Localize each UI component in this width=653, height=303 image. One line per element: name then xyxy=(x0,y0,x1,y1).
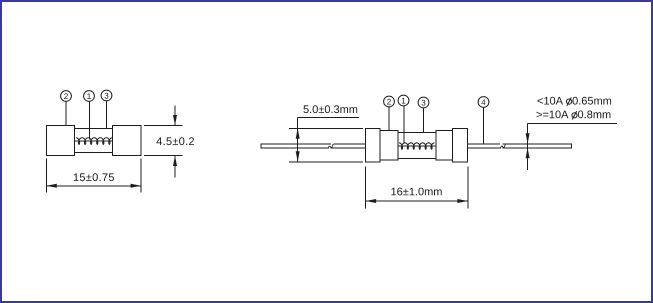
leader from circle 2 to inner cap xyxy=(388,107,390,131)
fuse left view: glass tube xyxy=(75,129,113,153)
dimension text 4.5±0.2 xyxy=(156,137,194,145)
left lead wire top line xyxy=(261,143,331,145)
dimension text 16±1.0mm xyxy=(391,188,441,196)
left lead wire end xyxy=(260,143,262,148)
dimension 16±1.0mm extension line right xyxy=(467,166,469,208)
right lead wire top line xyxy=(468,143,500,145)
leader line from circle 2 to left cap xyxy=(65,101,67,125)
right lead wire bottom line xyxy=(468,147,501,149)
lead diameter leader horizontal xyxy=(528,122,617,124)
axial view: left inner cap xyxy=(380,131,398,161)
leader from circle 1 to fuse element xyxy=(403,106,405,143)
lead diameter leader vertical with arrows xyxy=(527,123,529,170)
dimension 4.5±0.2 extension line top xyxy=(144,125,183,127)
fuse left view: right end cap xyxy=(113,126,142,156)
lead diameter annotation line 2: >=10A ø0.8mm xyxy=(537,111,569,119)
leader from circle 4 to lead wire xyxy=(483,107,485,143)
leader from circle 3 to glass tube xyxy=(422,108,424,133)
dimension 5.0 extension line bottom xyxy=(289,161,363,163)
dimension 5.0 extension line top xyxy=(289,127,363,129)
dimension 4.5±0.2 upper arrow xyxy=(174,105,176,125)
break mark on right lead xyxy=(500,144,505,149)
callout circle 4 (axial view) xyxy=(478,97,489,108)
left lead wire bottom line xyxy=(261,147,328,149)
callout circle 3 (axial view) xyxy=(418,97,429,108)
axial view: left outer cap xyxy=(365,129,380,163)
dimension 15±0.75 extension line left xyxy=(45,159,47,193)
leader line from circle 1 to fuse element xyxy=(88,101,90,139)
fuse element coil (left view) xyxy=(76,138,112,145)
dimension text 15±0.75 xyxy=(74,173,114,181)
leader line from circle 3 to glass tube xyxy=(106,101,108,129)
dimension 5.0±0.3mm leader underline xyxy=(298,117,359,119)
callout circle 1 (left view) xyxy=(84,91,95,102)
dimension 16±1.0mm extension line left xyxy=(365,166,367,208)
dimension 15±0.75 dimension line xyxy=(46,185,141,187)
right lead wire end xyxy=(571,143,573,148)
dimension 16±1.0mm dimension line xyxy=(366,200,468,202)
fuse element centerline (axial view) xyxy=(398,145,436,147)
fuse element centerline (left view) xyxy=(75,140,113,142)
dimension 5.0±0.3mm vertical arrow line xyxy=(297,118,299,162)
dimension text 5.0±0.3mm xyxy=(304,105,358,113)
dimension 15±0.75 extension line right xyxy=(140,159,142,193)
callout circle 3 (left view) xyxy=(101,90,112,101)
dimension 4.5±0.2 lower arrow xyxy=(174,156,176,178)
break mark on left lead xyxy=(328,144,333,149)
callout circle 2 (left view) xyxy=(61,91,72,102)
callout circle 2 (axial view) xyxy=(384,96,395,107)
axial view: right inner cap xyxy=(436,131,453,161)
callout circle 1 (axial view) xyxy=(398,95,409,106)
axial view: right outer cap xyxy=(453,129,468,163)
lead diameter annotation line 1: <10A ø0.65mm xyxy=(538,97,564,105)
dimension 4.5±0.2 extension line bottom xyxy=(144,155,183,157)
fuse element coil (axial view) xyxy=(399,143,435,149)
axial view: glass tube xyxy=(398,133,436,159)
fuse left view: left end cap xyxy=(47,126,75,156)
